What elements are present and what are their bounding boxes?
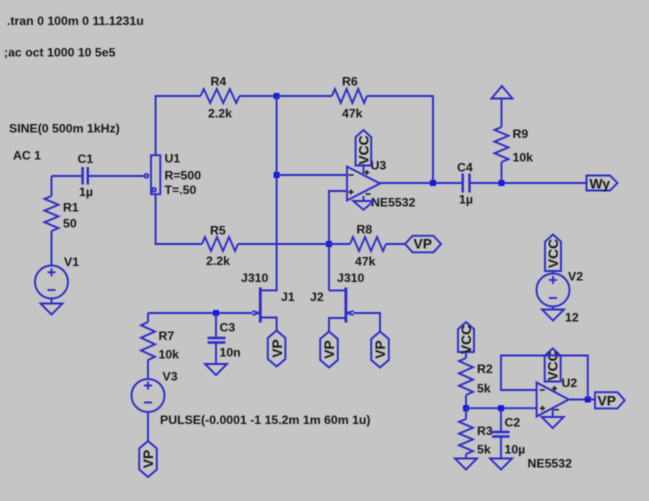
wire to U3 inverting input xyxy=(277,174,347,176)
svg-text:U2: U2 xyxy=(562,376,578,390)
svg-text:R6: R6 xyxy=(342,75,358,89)
resistor R1 xyxy=(45,196,59,231)
svg-text:R1: R1 xyxy=(63,201,79,215)
wire V2 to ground xyxy=(552,307,554,310)
ground under U3 xyxy=(353,201,374,210)
svg-text:V3: V3 xyxy=(163,370,178,384)
svg-text:VP: VP xyxy=(598,394,616,409)
wire VCC flag to V2 xyxy=(552,271,554,274)
junction C2 top xyxy=(498,405,504,411)
wire R5 to R8 xyxy=(238,243,350,245)
U3 V- pin wire xyxy=(363,196,365,201)
wire R9 top to arrow flag xyxy=(501,99,503,128)
svg-text:R5: R5 xyxy=(210,224,226,238)
wire C4 to Wy flag xyxy=(470,182,587,184)
svg-text:C2: C2 xyxy=(505,416,521,430)
resistor R3 xyxy=(459,419,473,454)
wire R2 to node B xyxy=(465,395,467,408)
ground under V2 xyxy=(542,310,564,321)
svg-text:NE5532: NE5532 xyxy=(528,457,573,471)
svg-text:VP: VP xyxy=(270,339,285,357)
svg-text:10k: 10k xyxy=(513,151,534,165)
wire node A down to J1 drain xyxy=(276,96,278,292)
junction R9/output xyxy=(499,180,505,186)
svg-text:VCC: VCC xyxy=(459,325,474,354)
svg-text:VCC: VCC xyxy=(546,239,561,268)
resistor R6 xyxy=(332,89,367,103)
svg-text:R3: R3 xyxy=(477,424,493,438)
ground under V1 xyxy=(41,304,63,315)
svg-text:R7: R7 xyxy=(159,329,175,343)
wire V3 to VP flag xyxy=(147,412,149,441)
capacitor C3 xyxy=(208,338,226,343)
svg-text:2.2k: 2.2k xyxy=(206,254,230,268)
wire C1 to U1 wiper xyxy=(88,175,145,177)
svg-text:J1: J1 xyxy=(281,290,295,304)
op-amp U3 xyxy=(347,167,380,201)
svg-text:10k: 10k xyxy=(159,348,180,362)
wire R1 to V1 xyxy=(51,231,53,266)
svg-text:5k: 5k xyxy=(477,382,491,396)
output port flag Wy xyxy=(587,176,618,192)
wire R7 to V3 xyxy=(147,360,149,379)
svg-text:VP: VP xyxy=(373,340,388,358)
svg-text:V2: V2 xyxy=(568,270,583,284)
svg-text:C4: C4 xyxy=(457,161,473,175)
svg-text:J2: J2 xyxy=(310,290,324,304)
ground under U2 xyxy=(542,417,564,428)
svg-text:;ac oct 1000 10 5e5: ;ac oct 1000 10 5e5 xyxy=(4,46,116,60)
svg-text:J310: J310 xyxy=(241,271,269,285)
junction at inverting input tee xyxy=(274,172,280,178)
svg-text:T=.50: T=.50 xyxy=(165,183,197,197)
wire input node to C1 xyxy=(52,175,83,177)
svg-text:R=500: R=500 xyxy=(165,169,202,183)
JFET J1 xyxy=(253,288,277,331)
node B junction xyxy=(463,405,469,411)
svg-text:J310: J310 xyxy=(337,271,365,285)
wire to U3 non-inverting input xyxy=(329,191,347,291)
U3 V+ pin wire xyxy=(363,164,365,174)
voltage source V3 xyxy=(132,379,165,412)
svg-text:5k: 5k xyxy=(477,443,491,457)
wire gate J1 xyxy=(148,312,253,314)
wire C2 top xyxy=(500,408,502,432)
svg-text:VP: VP xyxy=(322,340,337,358)
svg-text:1µ: 1µ xyxy=(79,185,93,199)
svg-text:C1: C1 xyxy=(78,152,94,166)
power arrow flag above R9 xyxy=(492,86,513,99)
op-amp U2 xyxy=(537,383,569,417)
svg-text:SINE(0 500m 1kHz): SINE(0 500m 1kHz) xyxy=(9,122,120,136)
net flag VP at R8 xyxy=(405,236,441,253)
power flag VCC above V2 xyxy=(545,235,561,272)
wire C2 to ground xyxy=(500,437,502,459)
svg-text:VP: VP xyxy=(414,237,432,252)
ground under R3 xyxy=(455,459,477,470)
power flag VCC above R2 xyxy=(458,322,474,354)
wire node B to U3 plus input xyxy=(466,407,537,409)
wire R9 bottom to output xyxy=(501,162,503,183)
junction C3 top xyxy=(213,310,219,316)
svg-text:12: 12 xyxy=(565,311,579,325)
capacitor C4 xyxy=(463,174,470,193)
wire R8 to VP flag xyxy=(386,243,405,245)
svg-text:10n: 10n xyxy=(220,346,241,360)
svg-text:1µ: 1µ xyxy=(459,193,473,207)
resistor R8 xyxy=(350,237,386,251)
junction feedback/output xyxy=(430,180,436,186)
svg-text:47k: 47k xyxy=(355,255,376,269)
svg-text:NE5532: NE5532 xyxy=(371,196,416,210)
svg-text:C3: C3 xyxy=(220,321,236,335)
power flag VCC above U2 xyxy=(545,349,561,382)
node A junction xyxy=(274,93,280,99)
net flag VP under J1 xyxy=(268,331,286,367)
wire gate J2 xyxy=(354,313,381,332)
svg-text:AC 1: AC 1 xyxy=(13,149,41,163)
resistor R9 xyxy=(495,127,509,162)
svg-text:U1: U1 xyxy=(165,152,181,166)
resistor R2 xyxy=(459,358,473,395)
output port flag VP at U2 xyxy=(595,392,625,408)
wire R6 to output node xyxy=(367,96,433,183)
resistor R7 xyxy=(141,322,155,360)
net flag VP at J2 gate xyxy=(371,332,389,368)
svg-text:.tran 0 100m 0 11.1231u: .tran 0 100m 0 11.1231u xyxy=(7,14,144,28)
resistor R4 xyxy=(201,89,240,103)
junction U2 output xyxy=(585,397,591,403)
svg-text:R4: R4 xyxy=(211,75,227,89)
wire U1 bottom to R5 xyxy=(156,194,202,244)
net flag VP under V3 xyxy=(139,441,157,477)
power flag VCC above U3 xyxy=(356,130,372,166)
svg-text:Wy: Wy xyxy=(590,177,611,192)
wire V1 to ground xyxy=(51,299,53,304)
voltage source V2 xyxy=(537,274,570,307)
wire U3 output to C4 xyxy=(380,182,462,184)
wire U2 feedback loop xyxy=(501,356,588,400)
wire U1 top to R4 xyxy=(156,96,201,155)
net flag VP under J2 source xyxy=(320,332,338,368)
svg-text:2.2k: 2.2k xyxy=(208,107,232,121)
wire VCC to R2 xyxy=(465,352,467,358)
wire U2 output xyxy=(569,399,595,401)
ground under C3 xyxy=(205,364,227,375)
junction at R5/R8 node xyxy=(326,241,332,247)
potentiometer U1 xyxy=(145,155,161,194)
svg-text:R9: R9 xyxy=(513,127,529,141)
wire input node down to R1 xyxy=(51,176,53,196)
capacitor C2 xyxy=(492,432,510,437)
wire node A to R6 xyxy=(277,95,332,97)
svg-text:47k: 47k xyxy=(342,107,363,121)
svg-text:VP: VP xyxy=(141,450,156,468)
wire node B to R3 xyxy=(465,408,467,419)
wire R4 to node A xyxy=(240,95,277,97)
wire C3 top xyxy=(215,313,217,338)
svg-text:R2: R2 xyxy=(477,362,493,376)
capacitor C1 xyxy=(83,167,88,185)
wire C3 bottom xyxy=(215,343,217,365)
resistor R5 xyxy=(202,237,238,251)
svg-text:PULSE(-0.0001 -1 15.2m 1m 60m: PULSE(-0.0001 -1 15.2m 1m 60m 1u) xyxy=(160,413,371,427)
svg-text:V1: V1 xyxy=(64,255,79,269)
svg-text:R8: R8 xyxy=(357,223,373,237)
svg-text:50: 50 xyxy=(63,217,77,231)
wire gate node down to R7 xyxy=(147,313,149,322)
ground under C2 xyxy=(490,459,512,470)
svg-text:VCC: VCC xyxy=(356,135,371,164)
wire R3 to ground xyxy=(465,454,467,459)
svg-text:10µ: 10µ xyxy=(505,443,526,457)
voltage source V1 xyxy=(35,266,68,299)
U2 V- pin wire xyxy=(552,408,554,417)
svg-text:U3: U3 xyxy=(371,159,387,173)
JFET J2 xyxy=(329,288,354,332)
